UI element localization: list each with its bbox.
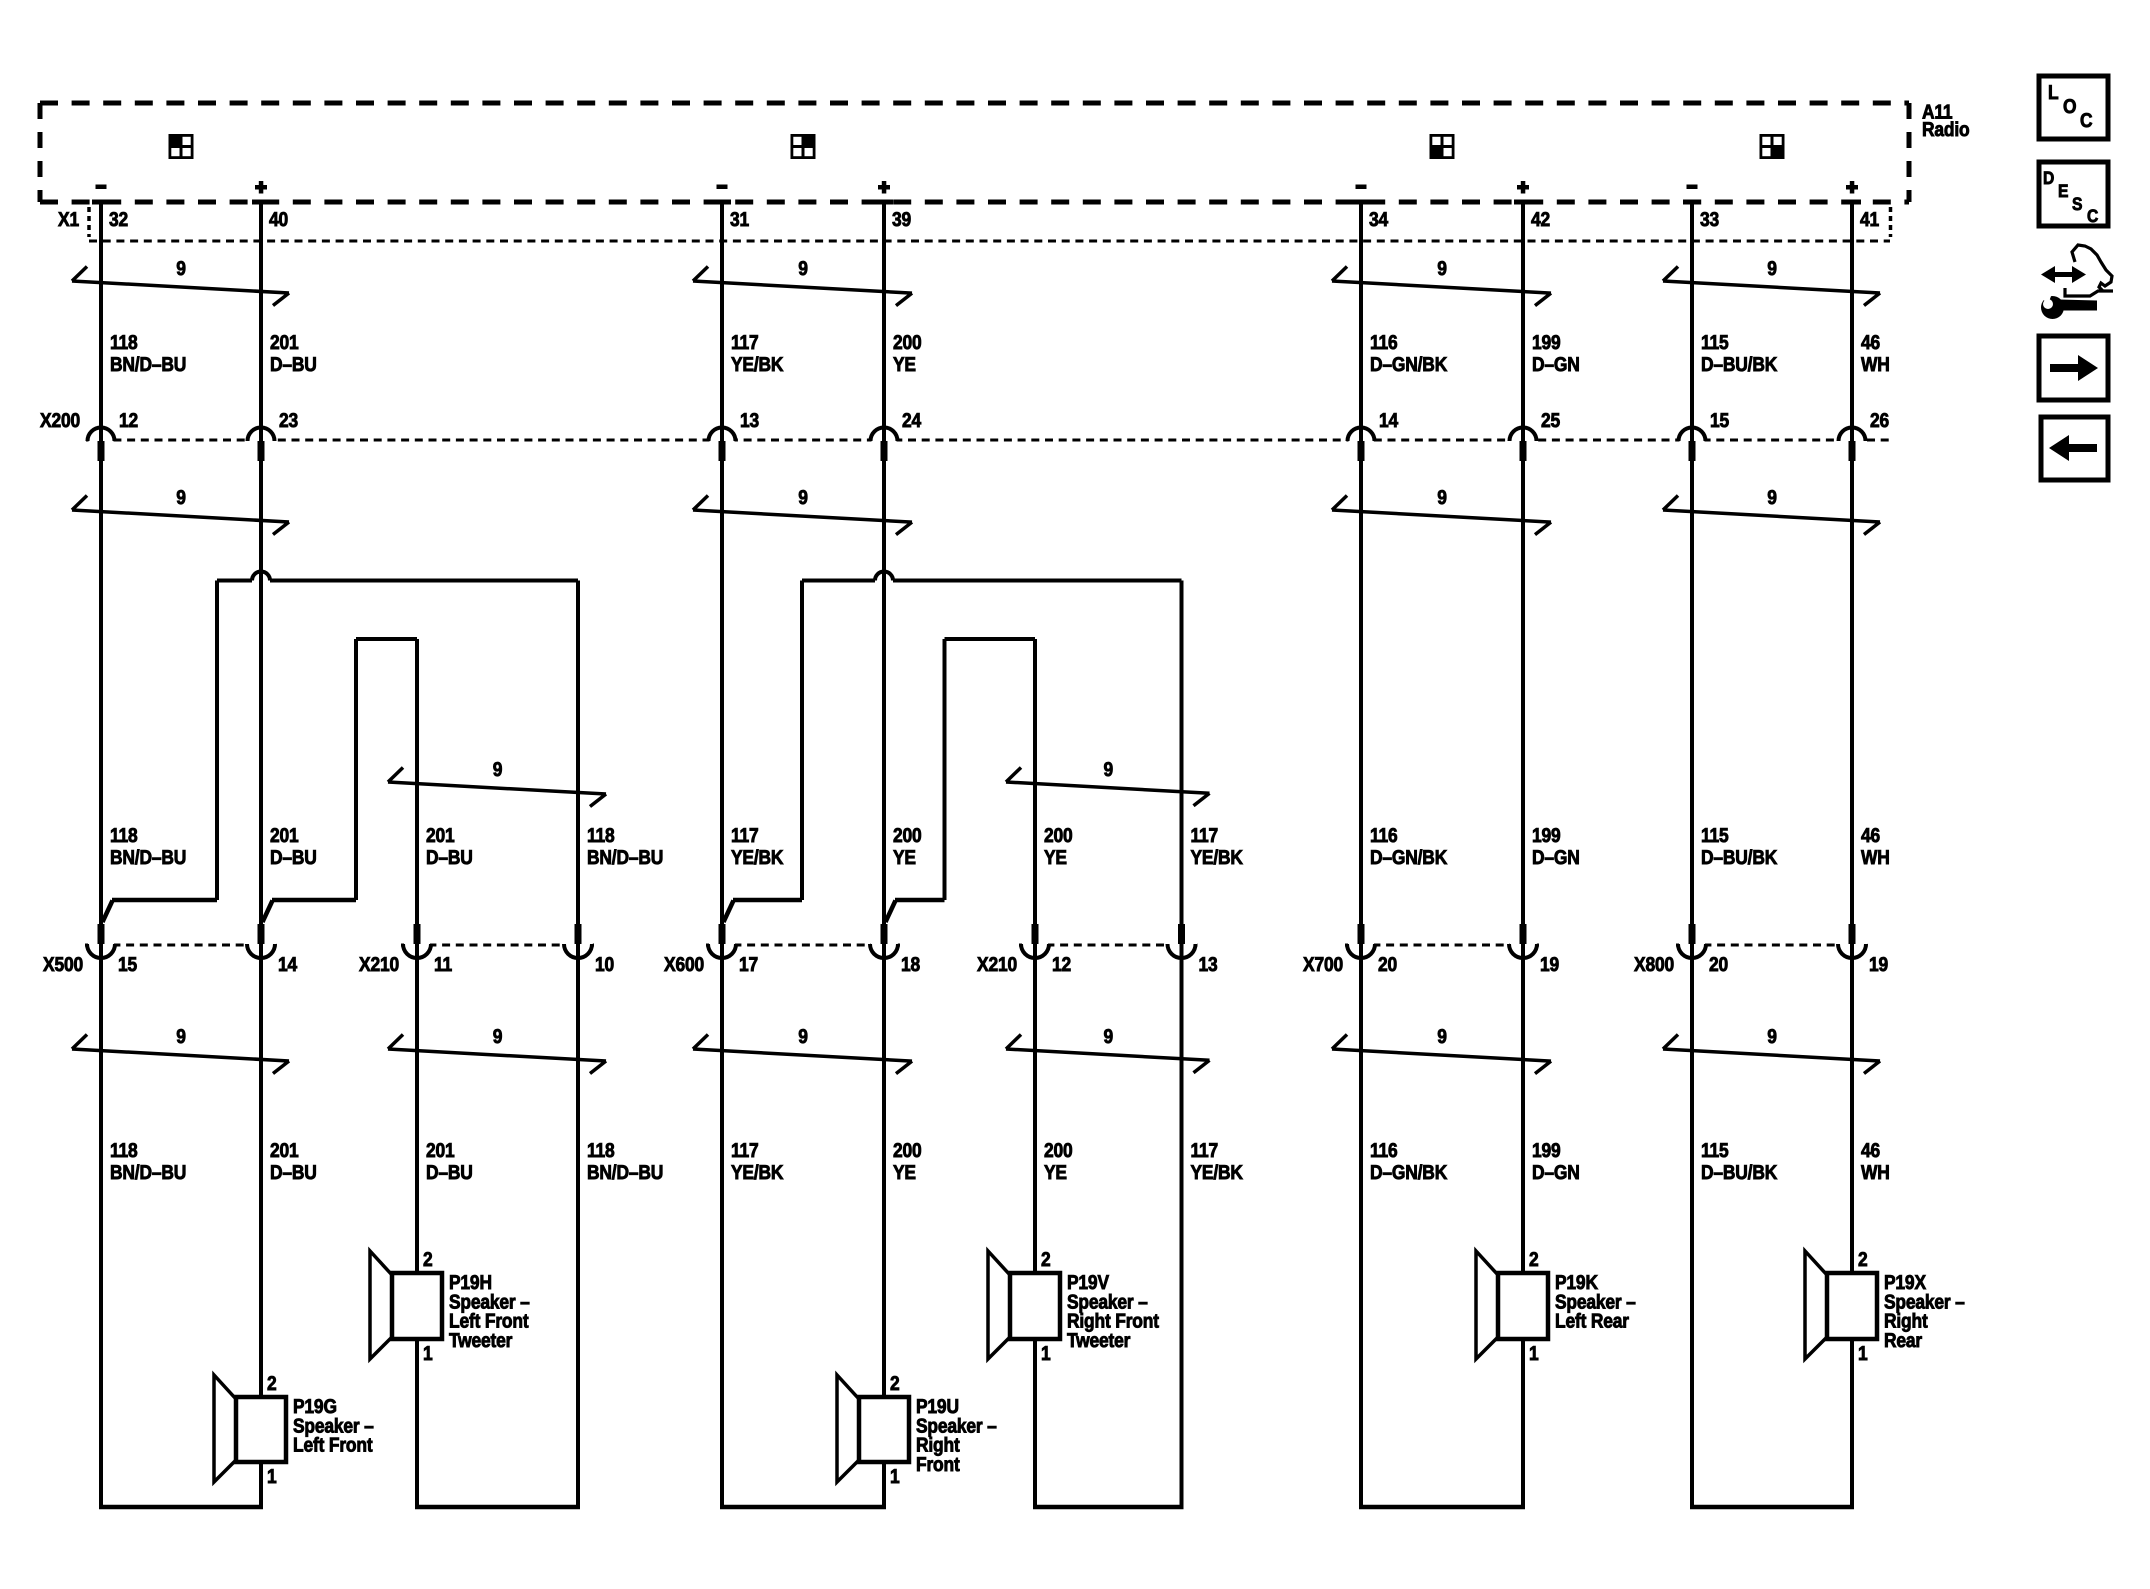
svg-text:26: 26 (1870, 410, 1889, 432)
svg-text:116: 116 (1370, 332, 1398, 354)
svg-text:117: 117 (1191, 1140, 1219, 1162)
svg-text:1: 1 (423, 1343, 433, 1365)
svg-text:D–BU: D–BU (270, 847, 317, 869)
svg-text:200: 200 (1044, 1140, 1073, 1162)
svg-text:X500: X500 (43, 954, 83, 976)
svg-text:D–GN/BK: D–GN/BK (1370, 1162, 1448, 1184)
svg-text:YE: YE (1044, 1162, 1067, 1184)
svg-text:YE/BK: YE/BK (1191, 847, 1244, 869)
svg-text:46: 46 (1861, 1140, 1880, 1162)
svg-text:Radio: Radio (1922, 119, 1969, 141)
svg-text:32: 32 (109, 209, 128, 231)
svg-text:YE/BK: YE/BK (731, 354, 784, 376)
svg-text:2: 2 (423, 1249, 433, 1271)
svg-text:9: 9 (798, 258, 808, 280)
svg-text:11: 11 (434, 954, 452, 976)
svg-text:9: 9 (493, 1026, 503, 1048)
svg-text:9: 9 (493, 759, 503, 781)
svg-text:X210: X210 (359, 954, 399, 976)
svg-text:YE/BK: YE/BK (1191, 1162, 1244, 1184)
svg-text:12: 12 (1052, 954, 1071, 976)
svg-text:200: 200 (893, 1140, 922, 1162)
svg-text:2: 2 (1858, 1249, 1868, 1271)
svg-text:118: 118 (110, 825, 138, 847)
svg-text:115: 115 (1701, 825, 1729, 847)
svg-text:10: 10 (595, 954, 614, 976)
svg-text:42: 42 (1531, 209, 1550, 231)
svg-text:33: 33 (1700, 209, 1719, 231)
svg-text:23: 23 (279, 410, 298, 432)
svg-text:D–GN: D–GN (1532, 847, 1580, 869)
svg-text:D–GN: D–GN (1532, 1162, 1580, 1184)
svg-text:Front: Front (916, 1454, 960, 1476)
svg-text:14: 14 (278, 954, 298, 976)
svg-text:15: 15 (118, 954, 137, 976)
svg-text:YE: YE (1044, 847, 1067, 869)
svg-text:L: L (2048, 82, 2058, 104)
svg-text:1: 1 (1041, 1343, 1051, 1365)
svg-text:1: 1 (1858, 1343, 1868, 1365)
svg-text:X200: X200 (40, 410, 80, 432)
svg-text:20: 20 (1709, 954, 1728, 976)
svg-text:YE: YE (893, 847, 916, 869)
svg-text:1: 1 (1529, 1343, 1539, 1365)
svg-text:2: 2 (1529, 1249, 1539, 1271)
svg-text:Left Front: Left Front (293, 1435, 373, 1457)
svg-text:17: 17 (739, 954, 758, 976)
svg-text:YE/BK: YE/BK (731, 847, 784, 869)
svg-text:118: 118 (110, 1140, 138, 1162)
svg-text:117: 117 (1191, 825, 1219, 847)
svg-text:YE: YE (893, 354, 916, 376)
svg-text:D–BU/BK: D–BU/BK (1701, 847, 1778, 869)
svg-text:200: 200 (893, 332, 922, 354)
svg-text:116: 116 (1370, 1140, 1398, 1162)
svg-text:9: 9 (1437, 487, 1447, 509)
svg-text:31: 31 (730, 209, 749, 231)
svg-text:1: 1 (267, 1466, 277, 1488)
svg-text:E: E (2058, 181, 2068, 201)
svg-text:YE/BK: YE/BK (731, 1162, 784, 1184)
svg-text:D–GN/BK: D–GN/BK (1370, 354, 1448, 376)
svg-text:9: 9 (1767, 258, 1777, 280)
svg-text:14: 14 (1379, 410, 1399, 432)
svg-text:20: 20 (1378, 954, 1397, 976)
svg-text:BN/D–BU: BN/D–BU (110, 354, 186, 376)
svg-text:115: 115 (1701, 332, 1729, 354)
svg-text:39: 39 (892, 209, 911, 231)
svg-text:WH: WH (1861, 1162, 1890, 1184)
svg-text:S: S (2072, 194, 2082, 214)
svg-text:D–BU: D–BU (270, 354, 317, 376)
svg-text:D–GN: D–GN (1532, 354, 1580, 376)
svg-text:9: 9 (1767, 1026, 1777, 1048)
svg-text:12: 12 (119, 410, 138, 432)
svg-text:X600: X600 (664, 954, 704, 976)
svg-text:201: 201 (270, 332, 299, 354)
svg-text:BN/D–BU: BN/D–BU (587, 1162, 663, 1184)
svg-text:24: 24 (902, 410, 922, 432)
svg-text:D–BU/BK: D–BU/BK (1701, 1162, 1778, 1184)
svg-text:Rear: Rear (1884, 1330, 1922, 1352)
svg-text:201: 201 (426, 825, 455, 847)
svg-text:201: 201 (270, 1140, 299, 1162)
svg-text:201: 201 (270, 825, 299, 847)
svg-text:X700: X700 (1303, 954, 1343, 976)
svg-text:200: 200 (1044, 825, 1073, 847)
svg-text:46: 46 (1861, 332, 1880, 354)
svg-text:9: 9 (1767, 487, 1777, 509)
svg-text:40: 40 (269, 209, 288, 231)
svg-text:116: 116 (1370, 825, 1398, 847)
svg-text:118: 118 (587, 1140, 615, 1162)
svg-text:O: O (2063, 96, 2076, 118)
svg-text:D: D (2043, 168, 2054, 188)
svg-text:C: C (2087, 206, 2098, 226)
svg-text:Tweeter: Tweeter (449, 1330, 513, 1352)
svg-text:BN/D–BU: BN/D–BU (110, 847, 186, 869)
svg-text:15: 15 (1710, 410, 1729, 432)
svg-text:X1: X1 (58, 209, 79, 231)
svg-text:25: 25 (1541, 410, 1560, 432)
svg-text:9: 9 (798, 1026, 808, 1048)
svg-text:9: 9 (1437, 1026, 1447, 1048)
svg-text:19: 19 (1869, 954, 1888, 976)
svg-text:2: 2 (1041, 1249, 1051, 1271)
svg-text:9: 9 (1103, 1026, 1113, 1048)
svg-text:19: 19 (1540, 954, 1559, 976)
svg-text:201: 201 (426, 1140, 455, 1162)
svg-text:BN/D–BU: BN/D–BU (110, 1162, 186, 1184)
svg-text:C: C (2080, 110, 2092, 132)
svg-text:D–BU/BK: D–BU/BK (1701, 354, 1778, 376)
svg-text:9: 9 (798, 487, 808, 509)
svg-text:117: 117 (731, 1140, 759, 1162)
svg-text:D–BU: D–BU (270, 1162, 317, 1184)
svg-text:199: 199 (1532, 1140, 1561, 1162)
svg-text:2: 2 (267, 1373, 277, 1395)
svg-text:Left Rear: Left Rear (1555, 1311, 1629, 1333)
svg-text:41: 41 (1860, 209, 1879, 231)
svg-text:9: 9 (176, 1026, 186, 1048)
svg-text:BN/D–BU: BN/D–BU (587, 847, 663, 869)
svg-text:13: 13 (740, 410, 759, 432)
svg-text:34: 34 (1369, 209, 1389, 231)
svg-text:115: 115 (1701, 1140, 1729, 1162)
svg-text:46: 46 (1861, 825, 1880, 847)
svg-text:117: 117 (731, 825, 759, 847)
svg-text:9: 9 (1437, 258, 1447, 280)
svg-text:199: 199 (1532, 825, 1561, 847)
svg-text:Tweeter: Tweeter (1067, 1330, 1131, 1352)
svg-text:D–BU: D–BU (426, 1162, 473, 1184)
svg-text:118: 118 (110, 332, 138, 354)
svg-text:9: 9 (1103, 759, 1113, 781)
svg-text:199: 199 (1532, 332, 1561, 354)
svg-text:X210: X210 (977, 954, 1017, 976)
svg-text:13: 13 (1199, 954, 1218, 976)
svg-text:D–BU: D–BU (426, 847, 473, 869)
svg-text:D–GN/BK: D–GN/BK (1370, 847, 1448, 869)
svg-text:18: 18 (901, 954, 920, 976)
svg-text:9: 9 (176, 487, 186, 509)
svg-text:X800: X800 (1634, 954, 1674, 976)
svg-text:9: 9 (176, 258, 186, 280)
svg-text:117: 117 (731, 332, 759, 354)
svg-text:YE: YE (893, 1162, 916, 1184)
svg-text:2: 2 (890, 1373, 900, 1395)
svg-text:WH: WH (1861, 847, 1890, 869)
svg-text:WH: WH (1861, 354, 1890, 376)
svg-text:200: 200 (893, 825, 922, 847)
svg-text:1: 1 (890, 1466, 900, 1488)
svg-text:118: 118 (587, 825, 615, 847)
